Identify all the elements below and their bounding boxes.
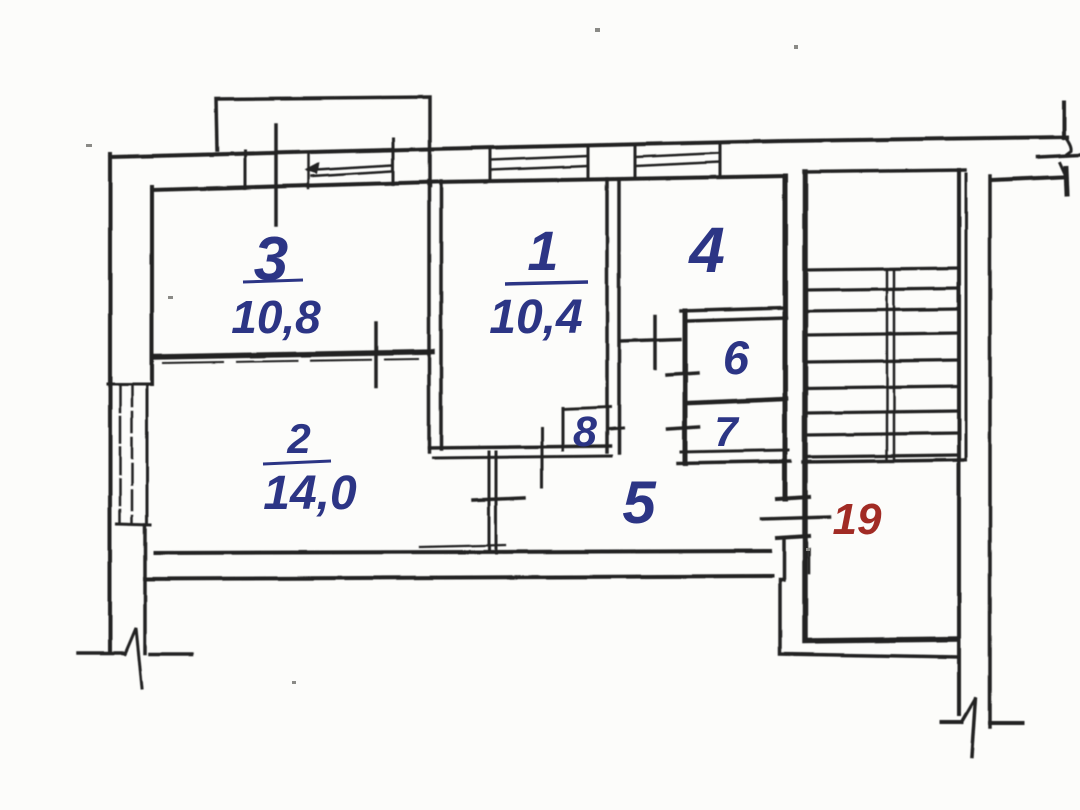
svg-text:2: 2 (286, 415, 310, 462)
svg-text:3: 3 (254, 225, 288, 294)
svg-text:4: 4 (687, 214, 725, 286)
svg-text:8: 8 (573, 408, 597, 456)
svg-text:1: 1 (527, 219, 558, 282)
svg-text:10,8: 10,8 (231, 291, 321, 343)
svg-text:14,0: 14,0 (263, 467, 357, 520)
svg-text:6: 6 (723, 331, 750, 384)
svg-text:7: 7 (714, 408, 739, 455)
svg-text:19: 19 (833, 495, 882, 544)
svg-text:5: 5 (622, 469, 657, 536)
svg-text:10,4: 10,4 (489, 291, 582, 344)
